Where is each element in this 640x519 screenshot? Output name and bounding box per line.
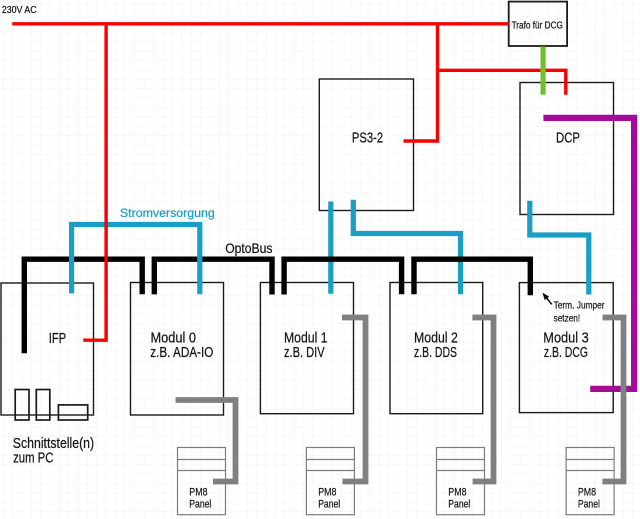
wire red 230V AC main horizontal to Trafo: [12, 22, 509, 25]
label Schnittstelle(n) zum PC: [13, 436, 94, 467]
panel box PM8 Panel 1: [178, 448, 226, 515]
wire purple DCP to Modul 3: [543, 118, 634, 389]
IFP PC connector 2: [36, 390, 50, 421]
wire OptoBus segment Modul 1 to Modul 2 (black): [284, 259, 402, 294]
wire OptoBus segment Modul 2 to Modul 3 (black): [414, 259, 530, 295]
wire gray panel cable Modul 3 to PM8 Panel 4: [602, 318, 623, 482]
interface box IFP: [1, 283, 94, 415]
box DCP: [520, 83, 614, 215]
wire red branch to DCP: [436, 70, 566, 94]
svg-text:Panel: Panel: [448, 499, 470, 511]
svg-text:PM8: PM8: [578, 487, 596, 499]
wire gray panel cable Modul 2 to PM8 Panel 3: [472, 318, 493, 482]
transformer box Trafo für DCG: [509, 2, 567, 46]
wire red 230V AC drop to IFP: [83, 22, 106, 340]
module box Modul 3 z.B. DCG: [519, 283, 613, 413]
panel box PM8 Panel 4: [566, 448, 614, 515]
svg-text:Panel: Panel: [318, 499, 340, 511]
svg-text:z.B. DIV: z.B. DIV: [284, 345, 325, 361]
wire green Trafo to DCP: [540, 47, 545, 95]
svg-text:DCP: DCP: [556, 131, 580, 147]
svg-text:z.B. DCG: z.B. DCG: [544, 345, 588, 361]
wire cyan power PS3-2 to Modul 2: [353, 200, 460, 294]
svg-text:230V AC: 230V AC: [2, 5, 37, 16]
module box Modul 1 z.B. DIV: [260, 283, 353, 414]
panel box PM8 Panel 3: [437, 448, 485, 515]
svg-text:PM8: PM8: [189, 487, 207, 499]
svg-text:z.B. DDS: z.B. DDS: [414, 345, 457, 361]
wire gray panel cable Modul 1 to PM8 Panel 2: [342, 318, 366, 482]
svg-text:PM8: PM8: [448, 487, 466, 499]
svg-text:z.B. ADA-IO: z.B. ADA-IO: [150, 345, 213, 361]
IFP PC connector 3: [58, 405, 87, 420]
panel box PM8 Panel 2: [306, 448, 354, 515]
wire red 230V AC drop to PS3-2: [404, 24, 438, 141]
svg-text:Trafo für DCG: Trafo für DCG: [512, 20, 563, 31]
wire gray panel cable Modul 0 to PM8 Panel 1: [176, 400, 236, 482]
module box Modul 0 z.B. ADA-IO: [131, 283, 224, 416]
svg-text:zum PC: zum PC: [13, 451, 54, 467]
svg-text:Panel: Panel: [189, 499, 211, 511]
wire cyan power IFP to Modul 0: [72, 225, 200, 295]
power supply box PS3-2: [319, 79, 413, 211]
svg-text:Stromversorgung: Stromversorgung: [120, 206, 215, 220]
annotation text Term. Jumper setzen!: [554, 301, 606, 325]
svg-text:Panel: Panel: [578, 499, 600, 511]
annotation arrow Term. Jumper: [543, 293, 552, 305]
svg-text:setzen!: setzen!: [554, 314, 581, 325]
wire OptoBus segment Modul 0 to Modul 1 (black): [154, 259, 272, 294]
IFP PC connector 1: [15, 390, 29, 421]
svg-text:PM8: PM8: [318, 487, 336, 499]
svg-text:Term. Jumper: Term. Jumper: [554, 301, 606, 312]
svg-text:OptoBus: OptoBus: [225, 241, 272, 256]
svg-text:PS3-2: PS3-2: [352, 131, 383, 147]
wire OptoBus segment IFP to Modul 0 (black): [24, 259, 142, 353]
wire cyan power PS3-2 to Modul 1: [328, 202, 333, 294]
wire cyan power DCP to Modul 3: [530, 201, 589, 295]
module box Modul 2 z.B. DDS: [390, 283, 483, 414]
svg-text:IFP: IFP: [49, 331, 66, 347]
